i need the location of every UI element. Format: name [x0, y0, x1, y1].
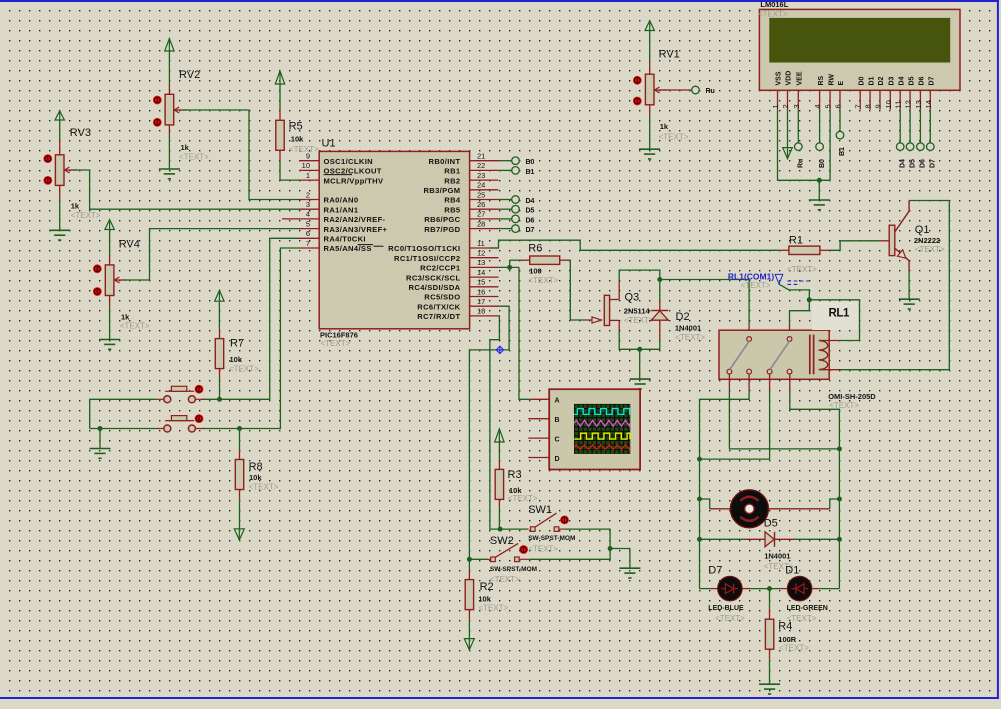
- svg-text:25: 25: [477, 190, 485, 199]
- svg-text:B: B: [555, 417, 560, 424]
- wire relay contact4 bottom to right rail: [790, 374, 842, 451]
- svg-text:Q3: Q3: [625, 292, 640, 304]
- svg-text:3: 3: [306, 200, 310, 209]
- svg-text:U1: U1: [322, 138, 336, 150]
- U1 pin 2 RA0/AN0: [299, 190, 358, 204]
- wire relay contact1 bottom to left rail: [729, 374, 839, 449]
- svg-text:E: E: [838, 81, 845, 86]
- power terminal above RV4: [105, 220, 114, 256]
- svg-text:RB0/INT: RB0/INT: [429, 157, 461, 166]
- potentiometer RV1: [645, 49, 688, 142]
- wire Q1 emitter to ground: [899, 271, 920, 309]
- svg-text:<TEXT>: <TEXT>: [715, 614, 745, 623]
- svg-text:12: 12: [904, 100, 913, 108]
- oscilloscope pin A: [530, 398, 550, 400]
- relay RL1 OMI-SH-205D body: [719, 301, 876, 410]
- svg-text:11: 11: [894, 101, 903, 109]
- wire R1 to Q1 base: [830, 241, 879, 251]
- svg-text:21: 21: [477, 152, 485, 161]
- svg-text:2: 2: [306, 190, 310, 199]
- wire motor left terminal: [700, 499, 731, 509]
- resistor R6 100: [520, 243, 570, 285]
- wire R8 top to button2 row: [237, 426, 242, 450]
- wire terminal flag to relay coil net: [779, 284, 812, 302]
- ground arrow below R2: [464, 620, 474, 650]
- svg-text:D2: D2: [676, 311, 690, 323]
- svg-text:12: 12: [477, 249, 485, 258]
- svg-text:22: 22: [477, 161, 485, 170]
- lcd pin 12 D5: [904, 76, 916, 109]
- lcd LM016L body: [758, 0, 960, 90]
- svg-text:11: 11: [477, 239, 485, 248]
- svg-text:4: 4: [306, 210, 310, 219]
- wire R7 to button row: [217, 378, 222, 402]
- svg-text:9: 9: [874, 104, 883, 108]
- resistor R2 10k: [465, 559, 508, 619]
- ground below Q3/D2: [630, 349, 651, 389]
- oscilloscope trace A cyan square wave: [574, 409, 630, 415]
- svg-text:Ru: Ru: [798, 159, 805, 168]
- wire RV3 wiper to U1 pin 3: [73, 170, 299, 209]
- ic U1 PIC16F876 body: [319, 138, 469, 349]
- U1 pin 28 RB7/PGD: [424, 219, 498, 233]
- svg-text:<TEXT>: <TEXT>: [229, 365, 259, 374]
- U1 pin 21 RB0/INT: [429, 152, 499, 166]
- wire relay contact3 bottom: [697, 374, 770, 462]
- svg-text:RC4/SDI/SDA: RC4/SDI/SDA: [409, 283, 461, 292]
- terminal D4: [499, 196, 535, 205]
- svg-text:RB6/PGC: RB6/PGC: [424, 215, 460, 224]
- svg-text:RC0/T1OSO/T1CKI: RC0/T1OSO/T1CKI: [388, 244, 460, 253]
- wire R5 to U1 pin 1: [280, 161, 299, 181]
- oscilloscope channel labels: [555, 398, 560, 463]
- svg-text:D4: D4: [526, 198, 535, 205]
- svg-text:D: D: [555, 456, 560, 463]
- svg-text:1: 1: [306, 171, 310, 180]
- SW2 interactive button: [519, 545, 528, 554]
- wire Q3 source to D2 anode: [619, 332, 660, 352]
- svg-text:RL1: RL1: [829, 308, 851, 320]
- svg-text:14: 14: [924, 100, 933, 108]
- SW1 interactive button: [560, 516, 569, 525]
- wire U1 pin 13 to R6 and oscilloscope: [499, 260, 530, 399]
- svg-text:<TEXT>: <TEXT>: [779, 643, 809, 652]
- power terminal above RV1: [645, 21, 654, 61]
- resistor R3 10k: [495, 460, 538, 507]
- lcd pin 7 D0: [854, 76, 866, 109]
- U1 pin 10 OSC2/CLKOUT: [299, 161, 382, 175]
- svg-text:<TEXT>: <TEXT>: [120, 322, 150, 331]
- svg-text:D3: D3: [889, 76, 896, 85]
- U1 pin 13 RC2/CCP1: [420, 258, 498, 272]
- svg-text:RC3/SCK/SCL: RC3/SCK/SCL: [406, 273, 460, 282]
- oscilloscope pin B: [528, 418, 549, 420]
- svg-text:RB7/PGD: RB7/PGD: [424, 225, 460, 234]
- led D7 LED-BLUE: [700, 565, 746, 623]
- svg-text:4: 4: [813, 104, 822, 108]
- U1 pin 3 RA1/AN1: [299, 200, 359, 214]
- svg-text:16: 16: [477, 287, 485, 296]
- svg-text:1k: 1k: [121, 312, 130, 321]
- dc motor: [730, 490, 768, 528]
- svg-text:2: 2: [781, 104, 790, 108]
- svg-text:RA5/AN4/SS: RA5/AN4/SS: [324, 244, 372, 253]
- lcd pin 3 VEE: [792, 71, 804, 109]
- wire U1 pin 11 to R1: [490, 240, 781, 250]
- U1 pin 1 MCLR/Vpp/THV: [299, 171, 384, 185]
- svg-text:RC7/RX/DT: RC7/RX/DT: [417, 312, 460, 321]
- svg-text:VEE: VEE: [797, 71, 804, 85]
- push button 2 interactive button: [195, 414, 204, 423]
- svg-text:D6: D6: [920, 159, 927, 168]
- power terminal above R5: [275, 71, 284, 110]
- svg-text:<TEXT>: <TEXT>: [71, 211, 101, 220]
- svg-text:10k: 10k: [478, 595, 491, 604]
- U1 pin 7 RA5/AN4/SS: [299, 239, 372, 253]
- U1 pin 26 RB5: [444, 200, 498, 214]
- transistor Q1 2N2222: [879, 201, 945, 272]
- svg-text:RV4: RV4: [119, 239, 140, 251]
- svg-text:<TEXT>: <TEXT>: [478, 604, 508, 613]
- svg-text:<TEXT>: <TEXT>: [249, 483, 279, 492]
- lcd pin 4 RS: [813, 75, 825, 109]
- wire U1 pin 17 to SW2/R2: [469, 306, 509, 559]
- wire button2 right leg: [195, 428, 204, 430]
- svg-text:R1: R1: [789, 234, 803, 246]
- RV2 adjust buttons: [153, 96, 162, 127]
- svg-text:RC6/TX/CK: RC6/TX/CK: [417, 302, 460, 311]
- svg-text:<TEXT>: <TEXT>: [508, 494, 538, 503]
- svg-text:RB5: RB5: [444, 205, 461, 214]
- wire U1 pin 7 to push button SW4 rail: [202, 248, 299, 429]
- svg-text:D5: D5: [908, 76, 915, 85]
- U1 pin 12 RC1/T1OSI/CCP2: [394, 249, 499, 263]
- terminal flag RL1(COM1): [775, 274, 809, 284]
- U1 pin 17 RC6/TX/CK: [417, 297, 498, 311]
- push button 1 interactive button: [195, 385, 204, 394]
- power terminal above RV3: [55, 111, 64, 140]
- svg-text:D5: D5: [909, 159, 916, 168]
- svg-text:SW-SPST-MOM: SW-SPST-MOM: [528, 535, 575, 542]
- svg-text:<TEXT>: <TEXT>: [529, 276, 559, 285]
- lcd pin 14 D7: [924, 76, 936, 109]
- svg-text:RL1(COM1): RL1(COM1): [728, 271, 774, 281]
- wire relay contact2 bottom to left rail top: [700, 374, 750, 459]
- svg-text:RC1/T1OSI/CCP2: RC1/T1OSI/CCP2: [394, 254, 461, 263]
- svg-text:17: 17: [477, 297, 485, 306]
- svg-text:13: 13: [914, 100, 923, 108]
- lcd data terminal D7: [927, 110, 937, 168]
- svg-text:26: 26: [477, 200, 485, 209]
- svg-text:VDD: VDD: [786, 71, 793, 86]
- switch SW2 SW-SPST-MOM: [490, 535, 537, 584]
- svg-text:<TEXT>: <TEXT>: [758, 10, 788, 19]
- lcd pin 6 E: [834, 81, 846, 110]
- svg-text:3: 3: [792, 104, 801, 108]
- svg-text:D6: D6: [526, 217, 535, 224]
- svg-text:LED-GREEN: LED-GREEN: [787, 605, 828, 612]
- svg-text:RV1: RV1: [659, 49, 680, 61]
- RV1 adjust buttons: [633, 76, 642, 106]
- U1 pin 5 RA3/AN3/VREF+: [299, 219, 388, 233]
- ground for switches: [610, 549, 640, 579]
- U1 pin 11 RC0/T1OSO/T1CKI: [388, 239, 498, 253]
- svg-text:10: 10: [884, 100, 893, 108]
- wire D1 to right rail: [812, 588, 840, 590]
- svg-text:<TEXT>: <TEXT>: [321, 339, 351, 348]
- svg-text:RC2/CCP1: RC2/CCP1: [420, 264, 461, 273]
- svg-text:5: 5: [824, 104, 833, 108]
- U1 pin 15 RC4/SDI/SDA: [409, 278, 499, 292]
- wire RV2 wiper to U1 pin 2: [183, 110, 299, 200]
- svg-text:23: 23: [477, 171, 485, 180]
- svg-text:RA0/AN0: RA0/AN0: [324, 196, 359, 205]
- lcd ground: [809, 178, 830, 210]
- svg-text:10k: 10k: [249, 473, 262, 482]
- svg-text:27: 27: [477, 210, 485, 219]
- wire Q1 collector to relay coil: [841, 201, 950, 370]
- lcd pin 13 D6: [914, 76, 926, 109]
- svg-text:OMI-SH-205D: OMI-SH-205D: [828, 392, 876, 401]
- ground tap for buttons: [90, 426, 111, 458]
- net label RL1(COM1): [728, 271, 774, 290]
- U1 pin 9 OSC1/CLKIN: [299, 152, 373, 166]
- svg-text:D2: D2: [878, 76, 885, 85]
- wire RV1 wiper to terminal Ru: [663, 86, 715, 95]
- svg-text:SW1: SW1: [528, 504, 552, 516]
- wire motor right terminal: [768, 499, 839, 509]
- lcd E terminal B1: [836, 110, 846, 156]
- svg-text:RB1: RB1: [444, 167, 461, 176]
- svg-text:LED-BLUE: LED-BLUE: [708, 605, 744, 612]
- diode D5 1N4001: [700, 518, 840, 572]
- svg-text:RA2/AN2/VREF-: RA2/AN2/VREF-: [324, 215, 386, 224]
- ground below R4: [759, 659, 780, 694]
- wire between D7 and D1: [742, 586, 787, 591]
- lcd RS terminal B0: [816, 110, 826, 168]
- svg-text:D1: D1: [785, 565, 799, 577]
- svg-text:RV2: RV2: [179, 69, 200, 81]
- diode D2 1N4001: [651, 301, 705, 342]
- lcd data terminal D5: [906, 110, 916, 168]
- push button 2 (to RA5): [164, 416, 196, 432]
- svg-text:7: 7: [854, 104, 863, 108]
- wire ground net to SW2 right: [519, 549, 610, 560]
- svg-text:14: 14: [477, 268, 485, 277]
- svg-text:<TEXT>: <TEXT>: [528, 544, 558, 553]
- svg-text:RA1/AN1: RA1/AN1: [324, 205, 359, 214]
- svg-text:Ru: Ru: [706, 88, 715, 95]
- wire lcd VSS to ground rail: [778, 110, 831, 181]
- svg-text:D7: D7: [930, 159, 937, 168]
- U1 RA4/T0CKI trailing overline: [358, 244, 374, 246]
- svg-text:<TEXT>: <TEXT>: [179, 153, 209, 162]
- U1 pin 25 RB4: [444, 190, 498, 204]
- svg-text:1k: 1k: [71, 201, 80, 210]
- led D1 LED-GREEN: [785, 565, 828, 623]
- ground arrow below R8: [234, 499, 244, 540]
- lcd pin 5 RW: [824, 74, 836, 110]
- svg-text:8: 8: [864, 104, 873, 108]
- svg-text:D6: D6: [919, 76, 926, 85]
- svg-text:R7: R7: [230, 338, 244, 350]
- svg-text:<TEXT>: <TEXT>: [624, 316, 654, 325]
- ground below RV1: [639, 116, 660, 159]
- node marker (blue): [496, 346, 503, 353]
- svg-text:<TEXT>: <TEXT>: [490, 575, 520, 584]
- potentiometer RV3: [55, 127, 100, 220]
- lcd data terminal D4: [896, 110, 906, 168]
- wire U1 pin 18 to SW1/R3: [490, 316, 527, 529]
- wire lcd RW to ground rail: [829, 110, 831, 181]
- svg-text:RB3/PGM: RB3/PGM: [423, 186, 460, 195]
- wire button1 left leg: [90, 399, 164, 428]
- relay armatures: [730, 341, 790, 369]
- terminal D6: [499, 215, 535, 224]
- wire U1 pin 6 to push button SW3 rail: [202, 238, 299, 399]
- terminal D5: [499, 205, 535, 214]
- svg-text:D1: D1: [868, 76, 875, 85]
- terminal B0: [499, 157, 535, 166]
- svg-text:RC5/SDO: RC5/SDO: [424, 293, 460, 302]
- svg-text:1k: 1k: [181, 143, 190, 152]
- wire SW1 right to ground net: [559, 529, 613, 551]
- svg-text:R3: R3: [508, 469, 522, 481]
- oscilloscope body: [549, 389, 640, 469]
- svg-text:1: 1: [771, 104, 780, 108]
- svg-text:28: 28: [477, 219, 485, 228]
- U1 pin 4 RA2/AN2/VREF-: [282, 210, 386, 224]
- lcd data terminal D6: [917, 110, 927, 168]
- U1 pin 22 RB1: [444, 161, 498, 175]
- svg-text:<TEXT>: <TEXT>: [787, 265, 817, 274]
- power terminal above RV2: [165, 39, 174, 86]
- svg-text:2N5114: 2N5114: [624, 307, 651, 316]
- svg-text:6: 6: [306, 229, 310, 238]
- svg-text:RS: RS: [818, 75, 825, 85]
- oscilloscope trace C yellow square wave: [574, 433, 630, 439]
- RV3 adjust buttons: [43, 154, 52, 185]
- potentiometer RV4: [105, 239, 150, 331]
- terminal D7: [499, 225, 535, 234]
- terminal B1: [499, 167, 535, 176]
- svg-text:VSS: VSS: [776, 71, 783, 85]
- U1 pin 18 RC7/RX/DT: [417, 307, 498, 321]
- svg-text:RW: RW: [828, 74, 835, 86]
- svg-text:1N4001: 1N4001: [675, 324, 701, 333]
- svg-text:D7: D7: [929, 76, 936, 85]
- svg-text:RB4: RB4: [444, 196, 461, 205]
- svg-text:RA4/T0CKI: RA4/T0CKI: [324, 235, 366, 244]
- svg-text:D4: D4: [899, 159, 906, 168]
- wire button2 left leg: [90, 428, 164, 430]
- U1 pin 6 RA4/T0CKI: [299, 229, 366, 243]
- U1 RA5 SS overline: [374, 245, 384, 247]
- oscilloscope trace B magenta: [574, 420, 630, 426]
- oscilloscope pin C: [528, 437, 549, 439]
- potentiometer RV2: [165, 69, 209, 162]
- wire RV4 wiper to U1 pin 5: [123, 229, 299, 280]
- resistor R5 10k: [276, 110, 319, 161]
- svg-text:R5: R5: [289, 120, 303, 132]
- svg-text:B0: B0: [526, 159, 535, 166]
- svg-text:D0: D0: [858, 76, 865, 85]
- RV4 adjust buttons: [93, 264, 102, 296]
- svg-text:D5: D5: [526, 208, 535, 215]
- wire coil net junction to relay contact pole 2: [790, 300, 810, 338]
- svg-text:1k: 1k: [660, 122, 669, 131]
- svg-text:<TEXT>: <TEXT>: [659, 133, 689, 142]
- wire R3 bottom to SW1 row: [498, 507, 503, 532]
- ground below RV3: [49, 198, 70, 240]
- svg-text:B1: B1: [526, 169, 535, 176]
- svg-text:B1: B1: [839, 147, 846, 156]
- relay contact pin circles: [727, 337, 792, 374]
- svg-text:D4: D4: [898, 76, 905, 85]
- lcd VEE terminal Ru: [795, 110, 805, 168]
- svg-text:RA3/AN3/VREF+: RA3/AN3/VREF+: [324, 225, 388, 234]
- svg-text:7: 7: [306, 239, 310, 248]
- resistor R1: [781, 234, 830, 274]
- svg-text:B0: B0: [819, 159, 826, 168]
- svg-text:<TEXT>: <TEXT>: [915, 245, 945, 254]
- svg-text:R2: R2: [480, 581, 494, 593]
- svg-text:13: 13: [477, 258, 485, 267]
- U1 pin 14 RC3/SCK/SCL: [406, 268, 498, 282]
- svg-text:10: 10: [302, 161, 310, 170]
- lcd pin 2 VDD: [781, 71, 793, 110]
- resistor R7 10k: [215, 330, 259, 378]
- svg-text:2N2222: 2N2222: [914, 236, 940, 245]
- svg-text:RB2: RB2: [444, 176, 460, 185]
- oscilloscope pin D: [528, 457, 549, 459]
- svg-text:SW2: SW2: [490, 535, 514, 547]
- svg-text:LM016L: LM016L: [760, 0, 788, 9]
- relay coil: [810, 335, 841, 375]
- wire button1 right leg: [195, 398, 204, 400]
- lcd pin 11 D4: [894, 76, 906, 109]
- wire SW2 left to R2 top: [467, 557, 491, 562]
- oscilloscope trace D red: [574, 445, 630, 450]
- svg-text:R6: R6: [528, 243, 542, 255]
- svg-text:100: 100: [529, 266, 542, 275]
- svg-text:<TEXT>: <TEXT>: [741, 281, 771, 290]
- wire coil net junction to coil top: [809, 300, 859, 341]
- U1 MCLR overline: [324, 174, 353, 176]
- wire Q3 drain to D2 net: [619, 270, 662, 301]
- left supply rail of motor bridge: [697, 459, 702, 588]
- power terminal above R7: [215, 290, 224, 330]
- wire R6 right to Q3 gate: [570, 260, 585, 320]
- U1 pin 27 RB6/PGC: [424, 210, 498, 224]
- svg-text:5: 5: [306, 219, 310, 228]
- svg-text:R8: R8: [249, 461, 263, 473]
- U1 pin 23 RB2: [444, 171, 498, 185]
- resistor R8 10k: [235, 450, 278, 499]
- svg-text:SW-SPST-MOM: SW-SPST-MOM: [490, 566, 537, 573]
- ground below RV2: [159, 135, 180, 179]
- transistor Q3 2N5114 JFET: [585, 281, 654, 332]
- svg-text:A: A: [555, 398, 560, 405]
- svg-text:<TEXT>: <TEXT>: [289, 145, 319, 154]
- wire D2 net to relay contact COM: [660, 280, 749, 339]
- svg-text:10k: 10k: [291, 135, 304, 144]
- push button 1 (to RA4): [164, 386, 196, 403]
- svg-text:R4: R4: [778, 621, 792, 633]
- U1 pin 24 RB3/PGM: [423, 181, 498, 195]
- lcd pin 9 D2: [874, 76, 886, 109]
- lcd pin 10 D3: [884, 76, 896, 109]
